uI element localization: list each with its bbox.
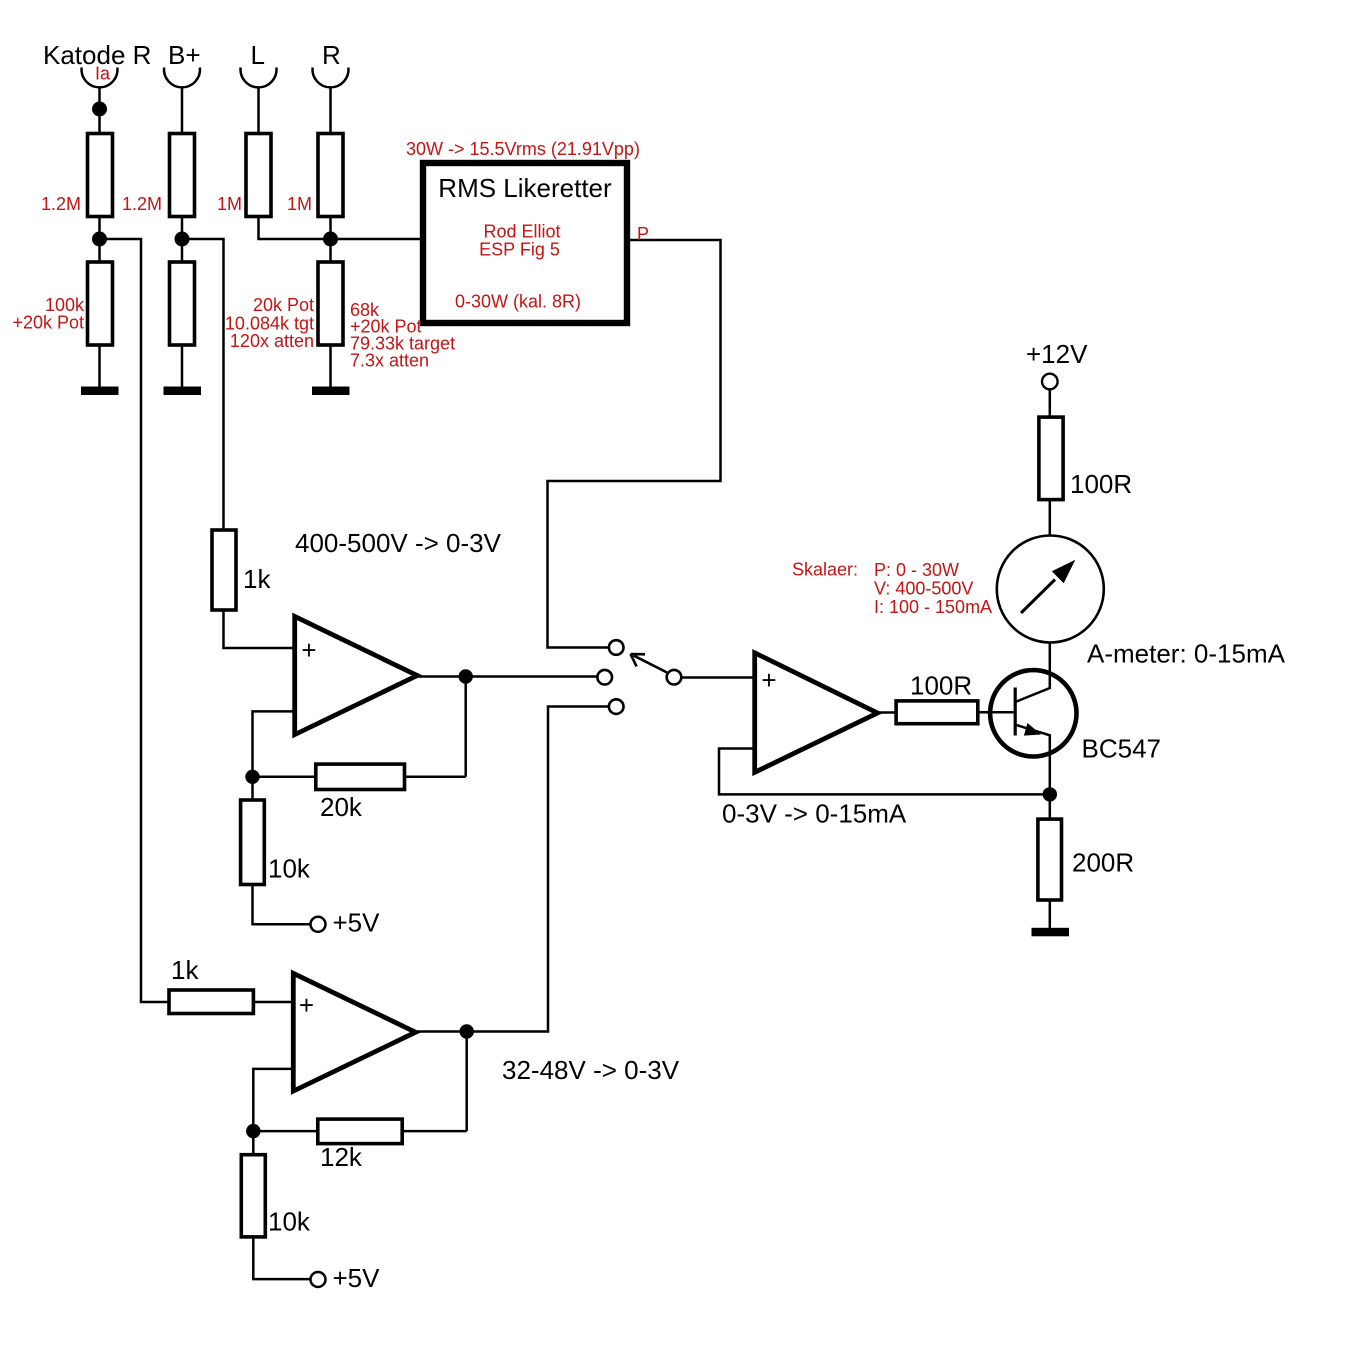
wire [257,88,260,135]
svg-text:7.3x atten: 7.3x atten [350,351,429,371]
svg-text:P: P [637,224,649,244]
svg-text:12k: 12k [320,1142,363,1172]
resistor 10k (lower) [241,1155,265,1237]
svg-text:+: + [301,635,316,665]
wire [251,777,254,800]
wire [329,88,332,135]
wire U2 output to switch [416,707,609,1032]
svg-text:Ia: Ia [95,64,111,84]
svg-text:100R: 100R [910,671,972,701]
svg-text:I: 100 - 150mA: I: 100 - 150mA [874,597,992,617]
wire [402,1130,467,1133]
wire [253,885,311,925]
svg-text:V: 400-500V: V: 400-500V [874,579,973,599]
terminal Katode R [82,68,118,88]
resistor lower (B+) [170,262,195,345]
wire Katode node to lower op-amp [100,239,171,1002]
transistor Q1 BC547 circle [990,670,1076,756]
wire [181,345,184,389]
Q1 emitter arrow [1024,723,1041,736]
wire to RMS box [331,238,424,241]
svg-text:+5V: +5V [333,908,381,938]
terminal R [313,68,349,88]
svg-text:A-meter: 0-15mA: A-meter: 0-15mA [1087,639,1286,669]
resistor 100k+20k Pot (Katode) [88,262,113,345]
resistor 100R (meter) [1039,417,1063,500]
wire [1049,500,1052,536]
node U2 inverting divider [246,1124,260,1138]
wire U3 output [878,711,897,714]
wire [253,1237,310,1279]
terminal +5V (upper) [311,917,326,932]
Q1 base bar [1014,688,1017,736]
svg-text:L: L [251,40,265,70]
terminal L [241,68,277,88]
wire B+ node to upper op-amp [182,239,224,531]
wire [98,345,101,389]
meter needle [1021,580,1055,614]
svg-text:ESP Fig 5: ESP Fig 5 [479,240,560,260]
wire [98,88,101,135]
svg-text:+5V: +5V [333,1263,381,1293]
svg-text:+12V: +12V [1026,339,1088,369]
ground (Katode divider) [81,387,119,396]
terminal +12V [1042,374,1058,390]
op-amp U3 [755,653,878,773]
svg-text:100R: 100R [1070,469,1132,499]
resistor 68k+20k Pot (R) [318,262,343,345]
wire [181,88,184,135]
wire [329,217,332,263]
svg-text:32-48V -> 0-3V: 32-48V -> 0-3V [502,1055,680,1085]
resistor 1.2M (Katode) [88,134,113,217]
switch contact I (bottom) [609,699,624,714]
svg-text:+20k Pot: +20k Pot [12,313,84,333]
svg-text:1.2M: 1.2M [122,194,162,214]
svg-text:Skalaer:: Skalaer: [792,560,858,580]
resistor 20k [316,764,405,789]
node U1 inverting divider [245,770,259,784]
ground (emitter) [1032,928,1070,937]
ground (B+ divider) [164,387,202,396]
wire to U1 inverting input [253,711,296,776]
wire to base [978,711,1014,714]
wire to U2 inverting input [253,1069,294,1131]
node U2 output [460,1024,474,1038]
svg-text:P: 0 - 30W: P: 0 - 30W [874,560,959,580]
RMS Likeretter box [423,163,627,323]
wire [1049,389,1052,417]
wire pole to U3 [682,676,755,679]
svg-text:20k: 20k [320,792,363,822]
op-amp U2 [293,973,415,1091]
svg-text:200R: 200R [1072,848,1134,878]
wire U2 feedback down [465,1032,468,1132]
switch arm with arrow [631,654,668,673]
svg-text:R: R [322,40,341,70]
svg-text:+: + [761,665,776,695]
op-amp U1 [295,616,418,734]
resistor 12k [318,1119,402,1144]
resistor 1k (upper op-amp input) [212,530,236,610]
wire P output [548,240,721,648]
svg-text:1k: 1k [243,564,271,594]
wire [253,776,316,779]
wire [253,1130,317,1133]
svg-text:B+: B+ [168,40,201,70]
resistor 1M (L) [246,134,271,217]
resistor 1.2M (B+) [170,134,195,217]
switch pole [667,670,682,685]
ground (R divider) [312,387,350,396]
Q1 collector lead [1015,643,1050,703]
svg-text:30W -> 15.5Vrms (21.91Vpp): 30W -> 15.5Vrms (21.91Vpp) [406,139,640,159]
meter needle arrowhead [1052,560,1076,584]
node below Katode terminal [92,102,107,117]
svg-text:1k: 1k [171,955,199,985]
svg-text:+: + [299,990,314,1020]
svg-text:BC547: BC547 [1082,734,1162,764]
resistor 200R [1038,819,1062,900]
wire [252,1131,255,1155]
svg-text:1M: 1M [287,194,312,214]
svg-text:1.2M: 1.2M [41,194,81,214]
node Katode divider [92,232,107,247]
terminal +5V (lower) [311,1272,326,1287]
node U1 output [459,669,473,683]
resistor 1k (lower op-amp input) [169,990,253,1014]
node emitter junction [1043,787,1057,801]
resistor 10k (upper) [241,800,265,885]
svg-text:RMS Likeretter: RMS Likeretter [438,173,612,203]
resistor 1M (R) [318,134,343,217]
svg-text:10k: 10k [268,854,311,884]
wire [329,345,332,389]
wire [181,217,184,263]
switch contact P (top) [609,640,624,655]
wire [259,217,331,240]
svg-text:20k Pot: 20k Pot [253,295,314,315]
wire U1 output [417,675,597,678]
wire [98,217,101,263]
svg-text:1M: 1M [217,194,242,214]
switch contact V (middle) [597,670,612,685]
wire [253,1001,294,1004]
wire U1 feedback down [464,677,467,777]
svg-text:400-500V -> 0-3V: 400-500V -> 0-3V [295,528,502,558]
svg-text:0-3V -> 0-15mA: 0-3V -> 0-15mA [722,799,907,829]
wire U3 feedback [719,749,1050,795]
terminal B+ [164,68,200,88]
meter M1 circle [997,536,1104,643]
svg-text:Rod Elliot: Rod Elliot [483,222,560,242]
Q1 emitter lead [1015,725,1050,819]
wire [1049,900,1052,930]
svg-text:10k: 10k [268,1207,311,1237]
node R divider [323,232,338,247]
node B+ divider [175,232,190,247]
wire [405,776,466,779]
resistor 100R (base) [896,701,978,724]
svg-text:0-30W (kal. 8R): 0-30W (kal. 8R) [455,292,581,312]
wire [224,610,296,648]
svg-text:120x atten: 120x atten [230,331,314,351]
